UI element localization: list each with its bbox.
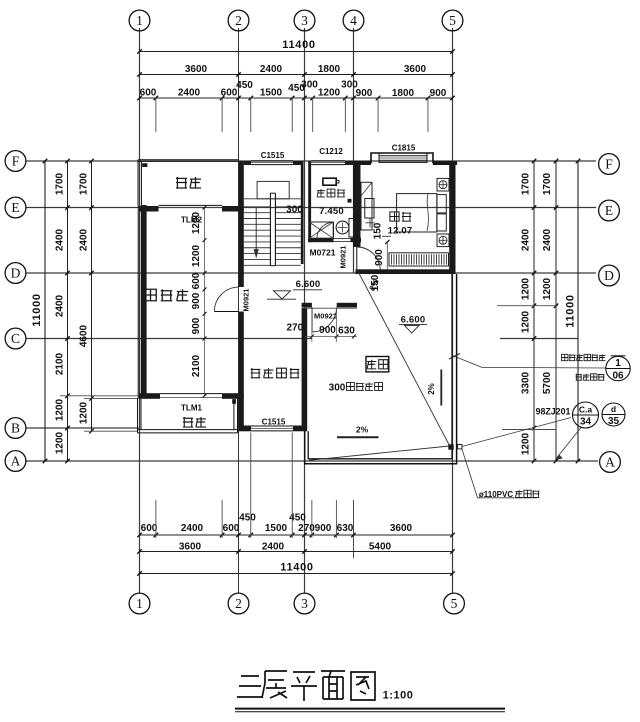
top dim extension lines [155, 98, 157, 132]
landing bottom wall with window C1515 [239, 426, 251, 432]
svg-text:2400: 2400 [521, 228, 532, 251]
svg-text:1200: 1200 [79, 401, 90, 424]
bedroom door M0921 leaf and arc [356, 247, 358, 269]
svg-text:A: A [605, 455, 615, 470]
grid axis line 1 (vertical) [139, 28, 141, 593]
svg-text:1700: 1700 [521, 172, 532, 195]
svg-text:270: 270 [286, 323, 303, 334]
svg-text:TLM1: TLM1 [181, 404, 202, 413]
svg-text:1: 1 [615, 358, 621, 369]
room label rest platform (xiu xi ping tai) [251, 368, 261, 378]
svg-text:A: A [11, 454, 21, 469]
svg-text:1200: 1200 [191, 244, 202, 267]
svg-text:3600: 3600 [390, 523, 413, 534]
svg-text:4600: 4600 [79, 324, 90, 347]
svg-text:1200: 1200 [318, 88, 341, 99]
svg-text:5: 5 [449, 13, 456, 28]
svg-text:M0921: M0921 [314, 311, 337, 320]
room label gym (jian shen fang) [145, 289, 157, 301]
gym bottom wall with opening TLM1 [139, 393, 160, 399]
callout note line1 (balcony detail ref) [562, 354, 568, 360]
gym west wall axis1 [137, 205, 139, 399]
svg-text:900: 900 [319, 325, 336, 336]
grid axis line B (horizontal) [26, 427, 139, 429]
svg-text:1200: 1200 [55, 431, 66, 454]
drain leader to callout [462, 418, 571, 447]
svg-text:1500: 1500 [260, 88, 283, 99]
axis circle B left [5, 418, 26, 439]
axis circle 5 top [442, 10, 463, 31]
svg-text:35: 35 [608, 416, 620, 427]
callout circle d/35 [602, 403, 625, 426]
hall south wall with door M0921 to terrace [302, 303, 312, 308]
svg-text:1800: 1800 [318, 64, 341, 75]
svg-text:630: 630 [337, 523, 354, 534]
svg-text:E: E [11, 200, 19, 215]
svg-text:1: 1 [136, 596, 143, 611]
axis circle E right [599, 200, 620, 221]
svg-text:1200: 1200 [55, 398, 66, 421]
grid axis line 5 (vertical) [452, 28, 454, 593]
left dim line 11000 [44, 161, 46, 461]
svg-text:1500: 1500 [265, 523, 288, 534]
svg-text:D: D [604, 268, 614, 283]
svg-text:34: 34 [580, 417, 592, 428]
svg-text:600: 600 [223, 523, 240, 534]
svg-text:6.600: 6.600 [401, 315, 426, 326]
callout leader down to A [557, 428, 581, 458]
wall stair east [301, 161, 304, 264]
axis circle 1 bottom [129, 593, 150, 614]
gym interior dim line [204, 208, 206, 396]
svg-text:06: 06 [612, 371, 624, 382]
axis circle A left [5, 451, 26, 472]
grid axis line F (horizontal) [26, 160, 596, 162]
svg-text:1800: 1800 [392, 88, 415, 99]
svg-text:C1815: C1815 [392, 144, 416, 153]
svg-text:300: 300 [329, 383, 346, 394]
wall axis2 stairwell west [239, 161, 244, 287]
svg-text:2%: 2% [427, 383, 436, 395]
top dim line row3 [140, 97, 453, 99]
svg-text:2%: 2% [356, 425, 369, 435]
svg-text:5: 5 [451, 596, 458, 611]
svg-text:300: 300 [301, 80, 318, 91]
callout leader to balcony detail [453, 356, 482, 368]
stair down arrow [255, 208, 257, 250]
bedroom south wall axis D [356, 269, 456, 274]
svg-text:450: 450 [236, 80, 253, 91]
stair upper flight outline [257, 181, 289, 198]
svg-text:600: 600 [140, 88, 157, 99]
wall F bathroom with window C1212 [345, 161, 359, 165]
room label balcony top (yang tai) [176, 177, 187, 188]
column at axis4-E [348, 199, 352, 203]
stair treads [244, 206, 270, 208]
svg-text:1:100: 1:100 [383, 690, 414, 702]
wall axis4 bathroom east / bedroom west [353, 164, 361, 247]
svg-text:5400: 5400 [369, 542, 392, 553]
svg-text:150: 150 [373, 222, 384, 239]
terrace drainage diagonal 1 [357, 269, 451, 447]
terrace door dim line [305, 336, 358, 338]
svg-text:3: 3 [301, 13, 308, 28]
axis circle 2 top [228, 10, 249, 31]
svg-text:5700: 5700 [542, 371, 553, 394]
toilet [323, 178, 336, 185]
axis circle 1 top [129, 10, 150, 31]
terrace parapet [308, 274, 452, 459]
bathroom south wall with door M0721 [308, 238, 333, 242]
room label bedroom (wo shi) [390, 212, 399, 221]
axis circle 3 bottom [294, 593, 315, 614]
gym door M0921 leaf and arc [214, 311, 238, 313]
axis circle C left [5, 328, 26, 349]
svg-text:900: 900 [315, 523, 332, 534]
bed [397, 194, 437, 232]
left dim extension lines [60, 395, 139, 397]
svg-text:M0721: M0721 [310, 248, 336, 258]
svg-text:1200: 1200 [521, 310, 532, 333]
svg-text:900: 900 [191, 292, 202, 309]
axis circle D right [599, 265, 620, 286]
bottom dim line rowC [140, 573, 453, 575]
door M0721 arc [333, 222, 335, 238]
bottom dim line rowB [140, 551, 453, 553]
terrace label (lu tai) [367, 360, 376, 369]
svg-text:3600: 3600 [185, 64, 208, 75]
slope mark 2% vertical [440, 370, 442, 406]
svg-text:C: C [11, 331, 20, 346]
bottom dim extension lines [155, 500, 157, 538]
svg-text:1: 1 [136, 13, 143, 28]
svg-text:900: 900 [430, 88, 447, 99]
title underline [235, 708, 505, 710]
svg-text:600: 600 [141, 523, 158, 534]
wall axis3 landing east [302, 308, 308, 426]
svg-text:2400: 2400 [55, 228, 66, 251]
axis circle D left [5, 263, 26, 284]
svg-text:630: 630 [338, 326, 355, 337]
svg-text:900: 900 [374, 249, 385, 266]
svg-text:2400: 2400 [181, 523, 204, 534]
nightstand with lamp top [437, 178, 449, 191]
axis circle 3 top [294, 10, 315, 31]
balcony bottom-left railing [138, 429, 238, 431]
svg-text:11400: 11400 [282, 39, 315, 51]
axis circle 5 bottom [444, 593, 465, 614]
drain leader to PVC text [462, 449, 478, 498]
svg-text:450: 450 [239, 513, 256, 524]
axis circle E left [5, 197, 26, 218]
svg-text:C1515: C1515 [262, 418, 286, 427]
svg-text:3600: 3600 [179, 542, 202, 553]
svg-text:12.07: 12.07 [388, 226, 413, 237]
grid axis line D (horizontal) [26, 272, 596, 274]
axis circle 4 top [343, 10, 364, 31]
column at gym SE corner [232, 399, 236, 404]
svg-text:F: F [12, 154, 20, 169]
svg-text:1200: 1200 [521, 432, 532, 455]
right dim extension line [497, 305, 558, 307]
svg-text:2100: 2100 [191, 354, 202, 377]
callout circle 1/06 [606, 356, 630, 380]
svg-text:1200: 1200 [542, 277, 553, 300]
svg-text:C1212: C1212 [319, 147, 343, 156]
axis circle A right [600, 452, 621, 473]
svg-text:98ZJ201: 98ZJ201 [536, 407, 571, 417]
left dim line outer chain [67, 161, 69, 461]
callout circle C.a/34 [573, 402, 599, 428]
svg-text:E: E [605, 203, 613, 218]
grid axis line C (horizontal) [26, 338, 312, 340]
svg-text:F: F [605, 157, 613, 172]
right dim line inner chain [555, 161, 557, 461]
svg-text:B: B [11, 421, 20, 436]
wall axis3 bathroom west [308, 161, 311, 242]
svg-text:3: 3 [301, 596, 308, 611]
top dim line row2 [140, 74, 453, 76]
grid axis line E (horizontal) [26, 207, 596, 209]
terrace drainage diagonal 2 [309, 446, 450, 460]
svg-text:11400: 11400 [280, 562, 313, 574]
svg-text:M0921: M0921 [242, 289, 251, 312]
dresser against west wall [361, 182, 372, 230]
axis circle F left [5, 151, 26, 172]
svg-text:300: 300 [286, 205, 303, 216]
svg-text:150: 150 [370, 274, 381, 291]
svg-text:2400: 2400 [178, 88, 201, 99]
svg-text:2: 2 [235, 596, 242, 611]
svg-text:1700: 1700 [542, 172, 553, 195]
grid axis line A (horizontal) [25, 460, 598, 462]
axis circle 2 bottom [228, 593, 249, 614]
wall F stair top with window C1515 [244, 161, 251, 165]
stair stringer [269, 193, 271, 266]
wall E balcony-gym with door opening TLM2 [139, 206, 159, 212]
svg-text:11000: 11000 [565, 294, 577, 327]
svg-text:C1515: C1515 [261, 151, 285, 160]
bedroom door dim line [386, 241, 388, 270]
svg-text:11000: 11000 [31, 293, 43, 326]
top dim line row1 (11400) [140, 51, 453, 53]
svg-text:ø110PVC: ø110PVC [479, 490, 513, 499]
grid axis line 3 (vertical) [304, 28, 306, 593]
nightstand with lamp bottom [437, 234, 449, 247]
svg-text:600: 600 [191, 272, 202, 289]
svg-text:6.600: 6.600 [296, 279, 321, 290]
shower tray [309, 222, 333, 238]
svg-text:4: 4 [350, 13, 357, 28]
svg-text:1700: 1700 [55, 172, 66, 195]
title text (third floor plan) [237, 676, 263, 697]
room label bathroom (wei sheng jian) [317, 189, 325, 197]
bottom dim line rowA [140, 534, 453, 536]
svg-text:2400: 2400 [260, 64, 283, 75]
svg-text:2400: 2400 [262, 542, 285, 553]
svg-text:3600: 3600 [404, 64, 427, 75]
bedroom bay window C1815 [357, 161, 371, 165]
right dim line 11000 [577, 161, 579, 461]
svg-text:3300: 3300 [521, 371, 532, 394]
terrace label box [366, 357, 389, 372]
column at balcony NW corner [142, 163, 147, 167]
svg-text:2: 2 [235, 13, 242, 28]
wardrobe with hanging clothes [389, 253, 449, 266]
grid axis line 4 (vertical) [353, 28, 355, 273]
svg-text:900: 900 [191, 317, 202, 334]
svg-text:1200: 1200 [191, 211, 202, 234]
svg-text:2400: 2400 [542, 228, 553, 251]
svg-text:450: 450 [289, 513, 306, 524]
svg-text:C.a: C.a [579, 405, 593, 415]
svg-text:1700: 1700 [79, 172, 90, 195]
svg-text:d: d [611, 404, 616, 414]
axis circle F right [599, 154, 620, 175]
svg-text:D: D [11, 266, 21, 281]
svg-text:7.450: 7.450 [319, 206, 344, 217]
svg-text:270: 270 [298, 523, 315, 534]
bedroom east wall axis5 [449, 161, 455, 274]
svg-text:2400: 2400 [79, 228, 90, 251]
right dim line outer chain [533, 161, 535, 461]
grid axis line 2 (vertical) [238, 28, 240, 593]
svg-text:M0921: M0921 [339, 246, 348, 269]
svg-text:2100: 2100 [55, 352, 66, 375]
balcony top-left railing [138, 159, 239, 161]
drain at terrace corner [448, 444, 453, 449]
svg-text:1200: 1200 [521, 277, 532, 300]
svg-text:900: 900 [356, 88, 373, 99]
room label balcony bottom (yang tai) [183, 417, 193, 427]
left dim line inner chain [91, 161, 93, 431]
terrace door M0921 leaf and arc [311, 307, 313, 332]
svg-text:2400: 2400 [55, 294, 66, 317]
callout note line2 (per client) [576, 374, 582, 380]
washbasin [336, 221, 349, 234]
